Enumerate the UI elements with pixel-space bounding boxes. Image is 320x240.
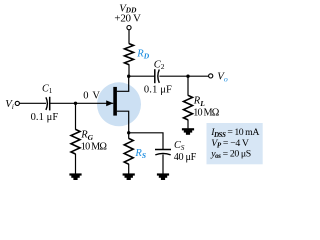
resistor RS — [124, 138, 133, 164]
transistor Q1 JFET channel bar — [113, 87, 117, 116]
wire source lead — [117, 111, 129, 133]
svg-text:Vi: Vi — [5, 98, 14, 111]
resistor RG — [71, 129, 80, 154]
svg-text:10 MΩ: 10 MΩ — [81, 141, 108, 152]
svg-text:RS: RS — [134, 148, 146, 160]
svg-text:Vo: Vo — [217, 70, 228, 83]
wire C1 to gate — [50, 102, 114, 104]
node source junction — [127, 131, 130, 134]
svg-text:C1: C1 — [42, 83, 53, 95]
svg-text:0.1 μF: 0.1 μF — [144, 85, 172, 96]
wire Vi to C1 — [19, 102, 46, 104]
wire C2 to Vo terminal — [159, 75, 208, 77]
node drain junction — [127, 75, 130, 78]
capacitor CS — [155, 149, 171, 151]
wire RS top — [128, 133, 130, 139]
terminal VDD — [127, 26, 131, 30]
svg-text:RL: RL — [193, 96, 205, 108]
ground under RL — [182, 128, 194, 135]
terminal Vi — [15, 101, 19, 105]
node gate junction — [74, 102, 77, 105]
wire VDD to RD — [128, 30, 130, 44]
wire CS to ground — [162, 154, 164, 173]
wire drain node to C2 — [129, 75, 155, 77]
svg-text:RD: RD — [136, 49, 149, 61]
ground under CS — [157, 173, 169, 180]
svg-text:0.1 μF: 0.1 μF — [31, 112, 59, 123]
wire RG to ground — [75, 154, 77, 174]
info box — [207, 123, 263, 164]
svg-text:40 μF: 40 μF — [174, 152, 197, 163]
wire drain lead — [117, 76, 129, 91]
JFET highlight circle — [97, 82, 141, 126]
ground under RG — [69, 173, 81, 180]
svg-text:RG: RG — [80, 130, 93, 142]
wire RL top — [187, 76, 189, 95]
transistor Q1 gate arrow — [106, 100, 113, 106]
svg-text:CS: CS — [174, 140, 185, 152]
node output junction — [186, 75, 189, 78]
resistor RD — [125, 44, 134, 65]
wire RD to drain node — [128, 64, 130, 76]
wire source node to CS — [129, 133, 163, 149]
capacitor C2 — [154, 69, 156, 83]
wire RS to ground — [128, 164, 130, 174]
resistor RL — [184, 95, 193, 120]
terminal Vo — [209, 74, 213, 78]
wire gate node to RG — [75, 103, 77, 129]
svg-text:+20 V: +20 V — [114, 12, 141, 24]
svg-text:C2: C2 — [154, 59, 165, 71]
capacitor C1 — [46, 97, 48, 110]
svg-text:10 MΩ: 10 MΩ — [193, 108, 220, 119]
wire RL to ground — [187, 120, 189, 129]
ground under RS — [123, 173, 135, 180]
svg-text:0 V: 0 V — [83, 91, 100, 102]
